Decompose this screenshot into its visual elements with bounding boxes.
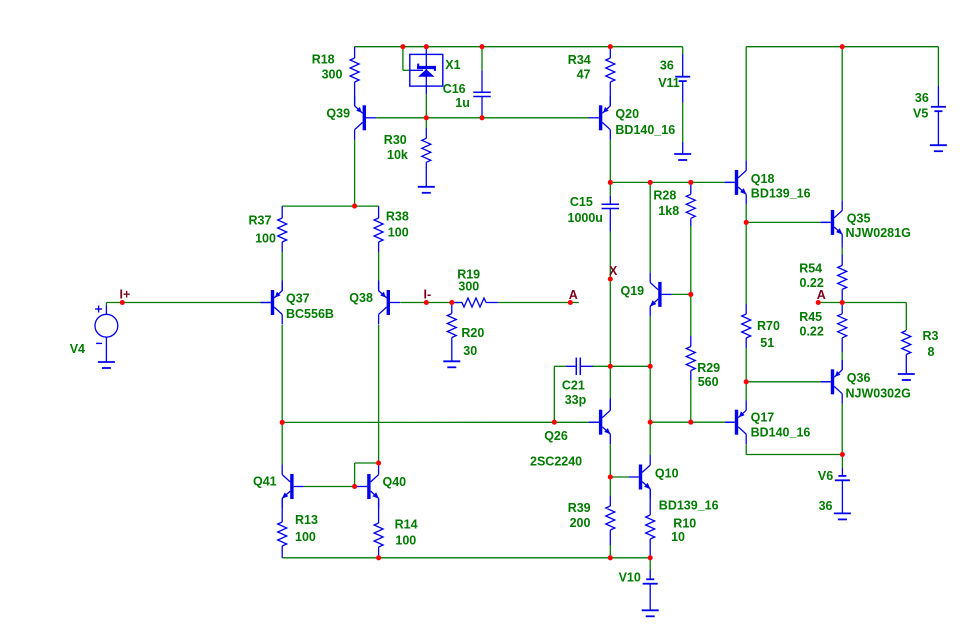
wire Q19 base (672, 293, 691, 295)
ground V5 (930, 144, 947, 146)
transistor Q39 (363, 105, 366, 130)
wire Q20 collector node y182 (610, 181, 725, 183)
transistor Q26 (599, 410, 602, 435)
svg-text:10: 10 (671, 530, 685, 544)
svg-text:I-: I- (424, 288, 432, 302)
svg-text:30: 30 (463, 344, 477, 358)
wire bottom rail (282, 557, 650, 559)
ground R20 (443, 360, 460, 362)
svg-text:Q41: Q41 (253, 474, 277, 488)
wire Q18emitter to Q35 base (746, 221, 821, 223)
resistor R13 (281, 498, 283, 522)
wire VAS column (node X) (609, 232, 611, 399)
svg-text:0.22: 0.22 (800, 325, 824, 339)
svg-text:R29: R29 (697, 361, 720, 375)
wire output to R3 (842, 302, 906, 304)
resistor R34 (609, 47, 611, 58)
resistor R20 (451, 303, 453, 314)
ground V10 (642, 609, 659, 611)
wire Q19 collector (649, 182, 651, 272)
wire C21 left drop (553, 366, 555, 422)
svg-text:Q17: Q17 (751, 411, 775, 425)
wire Q17 emitter (745, 382, 747, 401)
svg-text:2SC2240: 2SC2240 (530, 455, 582, 469)
svg-text:51: 51 (760, 336, 774, 350)
resistor R54 (841, 244, 843, 247)
svg-text:Q10: Q10 (655, 466, 679, 480)
ground R3 (898, 373, 915, 375)
wire top rail right (V+ output) (746, 46, 938, 48)
transistor Q17 (735, 410, 738, 435)
transistor Q18 (735, 170, 738, 195)
svg-text:C21: C21 (562, 379, 585, 393)
svg-text:R34: R34 (568, 53, 591, 67)
battery V11 (682, 47, 684, 54)
svg-text:Q36: Q36 (847, 371, 871, 385)
node A output stub (818, 302, 842, 304)
capacitor C15 (609, 182, 611, 195)
resistor R37 (281, 206, 283, 218)
svg-text:R20: R20 (461, 326, 484, 340)
wire base rail y118 (Q39 base to Q20 base) (376, 117, 589, 119)
svg-text:R38: R38 (386, 209, 409, 223)
wire Q36 collector (841, 404, 843, 455)
wire Q26 collector lead (609, 398, 611, 410)
svg-text:100: 100 (395, 534, 416, 548)
wire Q26 emitter (609, 444, 611, 477)
node X1 left wire (402, 47, 404, 71)
transistor Q41 (290, 474, 293, 499)
svg-text:R30: R30 (384, 133, 407, 147)
svg-text:100: 100 (388, 225, 409, 239)
svg-text:R13: R13 (295, 513, 318, 527)
wire Q38 emitter (378, 283, 380, 291)
battery V10 (649, 558, 651, 570)
resistor R10 (646, 515, 655, 539)
svg-text:36: 36 (915, 91, 929, 105)
resistor R70 (745, 222, 747, 304)
svg-text:33p: 33p (565, 393, 587, 407)
svg-text:R10: R10 (673, 517, 696, 531)
svg-text:A: A (569, 288, 578, 302)
ground V11 (674, 153, 691, 155)
svg-text:C15: C15 (570, 195, 593, 209)
svg-text:I+: I+ (120, 287, 131, 301)
svg-text:R54: R54 (799, 262, 822, 276)
wire Q41 base to Q40 (304, 486, 358, 488)
wire Q10 emitter (649, 489, 651, 515)
svg-text:36: 36 (660, 59, 674, 73)
svg-text:Q35: Q35 (847, 211, 871, 225)
svg-text:V5: V5 (913, 107, 928, 121)
voltage source V4 (95, 314, 118, 337)
resistor R45 (841, 303, 843, 314)
transistor Q38 (387, 290, 390, 315)
svg-text:10k: 10k (387, 148, 408, 162)
svg-text:V10: V10 (619, 571, 641, 585)
resistor R38 (378, 206, 380, 218)
transistor Q35 (831, 210, 834, 235)
wire Q36 emitter (841, 360, 843, 370)
capacitor C16 (481, 47, 483, 71)
svg-text:NJW0281G: NJW0281G (846, 226, 911, 240)
svg-text:36: 36 (819, 499, 833, 513)
svg-text:100: 100 (295, 530, 316, 544)
transistor Q36 (831, 369, 834, 394)
svg-text:R28: R28 (653, 188, 676, 202)
wire X node to Q19 emitter column (610, 365, 650, 367)
svg-text:BD140_16: BD140_16 (615, 123, 675, 137)
wire Q20 collector (609, 140, 611, 183)
wire Q37 emitter (281, 283, 283, 291)
svg-text:BD140_16: BD140_16 (751, 426, 811, 440)
wire top rail left (V+ front end) (355, 46, 683, 48)
svg-text:Q26: Q26 (544, 429, 568, 443)
transistor Q40 (367, 474, 370, 499)
wire long VAS input (y422) (282, 421, 589, 423)
svg-text:BD139_16: BD139_16 (751, 186, 811, 200)
svg-text:47: 47 (577, 68, 591, 82)
battery V5 (937, 47, 939, 86)
zener regulator X1 (410, 54, 443, 86)
svg-text:1u: 1u (455, 96, 470, 110)
svg-text:V11: V11 (658, 76, 680, 90)
svg-text:Q39: Q39 (326, 107, 350, 121)
wire Q18 emitter node (745, 204, 747, 222)
svg-text:Q20: Q20 (615, 107, 639, 121)
svg-text:X: X (609, 264, 618, 278)
wire R19 to node A (498, 302, 579, 304)
svg-text:300: 300 (322, 68, 343, 82)
svg-text:Q40: Q40 (383, 475, 407, 489)
svg-text:R14: R14 (395, 517, 418, 531)
wire Q17 collector to V6 node (745, 444, 747, 454)
svg-text:Q37: Q37 (286, 292, 310, 306)
wire Q17emitter to Q36 base (746, 381, 821, 383)
resistor R29 (690, 294, 692, 336)
ground V4 (98, 361, 115, 363)
svg-text:200: 200 (570, 516, 591, 530)
wire mirror loop (354, 463, 356, 487)
capacitor C21 (566, 365, 576, 367)
resistor R14 (378, 498, 380, 523)
svg-text:R18: R18 (312, 53, 335, 67)
svg-text:NJW0302G: NJW0302G (846, 386, 911, 400)
wire Q35 collector (841, 47, 843, 201)
wire Q17 base segment (650, 421, 725, 423)
resistor R30 (425, 118, 427, 128)
ground R30 (418, 186, 435, 188)
wire R37R38 top rail (282, 205, 378, 207)
wire Q39 collector (354, 140, 356, 206)
resistor R19 (452, 302, 462, 304)
resistor R18 (354, 47, 356, 58)
resistor R28 (690, 184, 692, 195)
svg-text:V4: V4 (70, 342, 85, 356)
svg-text:Q18: Q18 (751, 172, 775, 186)
wire Q37 collector (281, 325, 283, 422)
transistor Q19 (658, 282, 661, 307)
svg-text:C16: C16 (443, 82, 466, 96)
svg-text:R3: R3 (923, 329, 939, 343)
svg-text:560: 560 (698, 375, 719, 389)
wire Q10 base (610, 476, 629, 478)
svg-text:100: 100 (255, 232, 276, 246)
svg-text:1000u: 1000u (568, 211, 603, 225)
svg-text:R39: R39 (568, 501, 591, 515)
svg-text:R37: R37 (249, 214, 272, 228)
junction dots (120, 300, 125, 305)
svg-text:8: 8 (928, 345, 935, 359)
svg-text:V6: V6 (818, 469, 833, 483)
svg-text:X1: X1 (445, 58, 460, 72)
svg-text:Q19: Q19 (621, 284, 645, 298)
svg-text:R70: R70 (757, 319, 780, 333)
svg-text:R45: R45 (799, 310, 822, 324)
ground V6 (834, 512, 851, 514)
svg-text:BD139_16: BD139_16 (659, 498, 719, 512)
battery V6 (841, 455, 843, 469)
svg-text:300: 300 (458, 279, 479, 293)
wire Q19 emitter (649, 316, 651, 366)
wire X1 to base rail (425, 94, 427, 118)
wire V4 to Q37 base (105, 303, 107, 306)
wire Q18 collector (745, 47, 747, 161)
wire Q41 collector (281, 422, 283, 464)
resistor R3 (902, 331, 911, 355)
transistor Q10 (639, 465, 642, 490)
svg-text:1k8: 1k8 (658, 204, 679, 218)
wire Q19emitter column down (649, 366, 651, 455)
svg-text:Q38: Q38 (349, 291, 373, 305)
resistor R39 (609, 477, 611, 496)
wire Q38 base to R19 (400, 302, 462, 304)
transistor Q37 (271, 290, 274, 315)
svg-text:BC556B: BC556B (286, 307, 334, 321)
transistor Q20 (599, 105, 602, 130)
wire Q38 collector (378, 325, 380, 463)
